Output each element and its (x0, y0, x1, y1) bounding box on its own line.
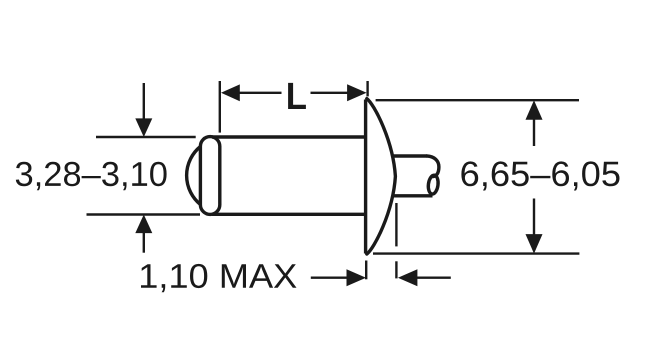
label 1,10 MAX (141, 264, 297, 292)
mandrel rounded end (427, 156, 439, 177)
mandrel bottom edge (394, 194, 433, 197)
rivet head dome (367, 99, 396, 254)
bottom dimension extension line at head crown upper (395, 203, 397, 246)
left dimension down-arrow stem (143, 83, 145, 121)
label 6,65-6,05 (461, 161, 619, 190)
bottom dimension right-pointing arrow stem (311, 277, 348, 279)
bottom dimension extension line at head face (365, 261, 367, 280)
rivet body top edge (212, 135, 366, 138)
right dimension up arrowhead (526, 100, 543, 120)
dimension L extension line right (366, 81, 368, 96)
right dimension upper stem (533, 119, 535, 146)
right dimension lower stem (533, 199, 535, 236)
dimension L left arrowhead (221, 84, 240, 101)
label L (288, 83, 306, 109)
dimension L line right segment (311, 92, 349, 94)
bottom dimension left-pointing arrowhead (398, 269, 418, 286)
dimension L line left segment (239, 92, 282, 94)
blind end dome arc (187, 147, 201, 205)
rivet head left face (364, 100, 367, 254)
left dimension up arrowhead (135, 215, 152, 234)
mandrel top edge (393, 154, 427, 157)
bottom dimension left-pointing arrow stem (416, 277, 450, 279)
blind-end sleeve capsule (200, 137, 219, 215)
label 3,28-3,10 (16, 162, 167, 191)
left dimension bottom extension line (87, 213, 201, 215)
dimension L right arrowhead (347, 84, 367, 101)
bottom dimension right-pointing arrowhead (347, 269, 367, 286)
bottom dimension extension line at head crown lower (395, 261, 397, 278)
left dimension down arrowhead (135, 118, 152, 137)
right dimension top extension line (376, 99, 579, 101)
right dimension down arrowhead (526, 234, 543, 254)
left dimension up-arrow stem (143, 232, 145, 253)
left dimension top extension line (96, 136, 196, 138)
dimension L extension line left (219, 81, 221, 133)
right dimension bottom extension line (373, 252, 579, 254)
rivet body bottom edge (212, 213, 366, 216)
mandrel break ellipse (427, 175, 439, 195)
